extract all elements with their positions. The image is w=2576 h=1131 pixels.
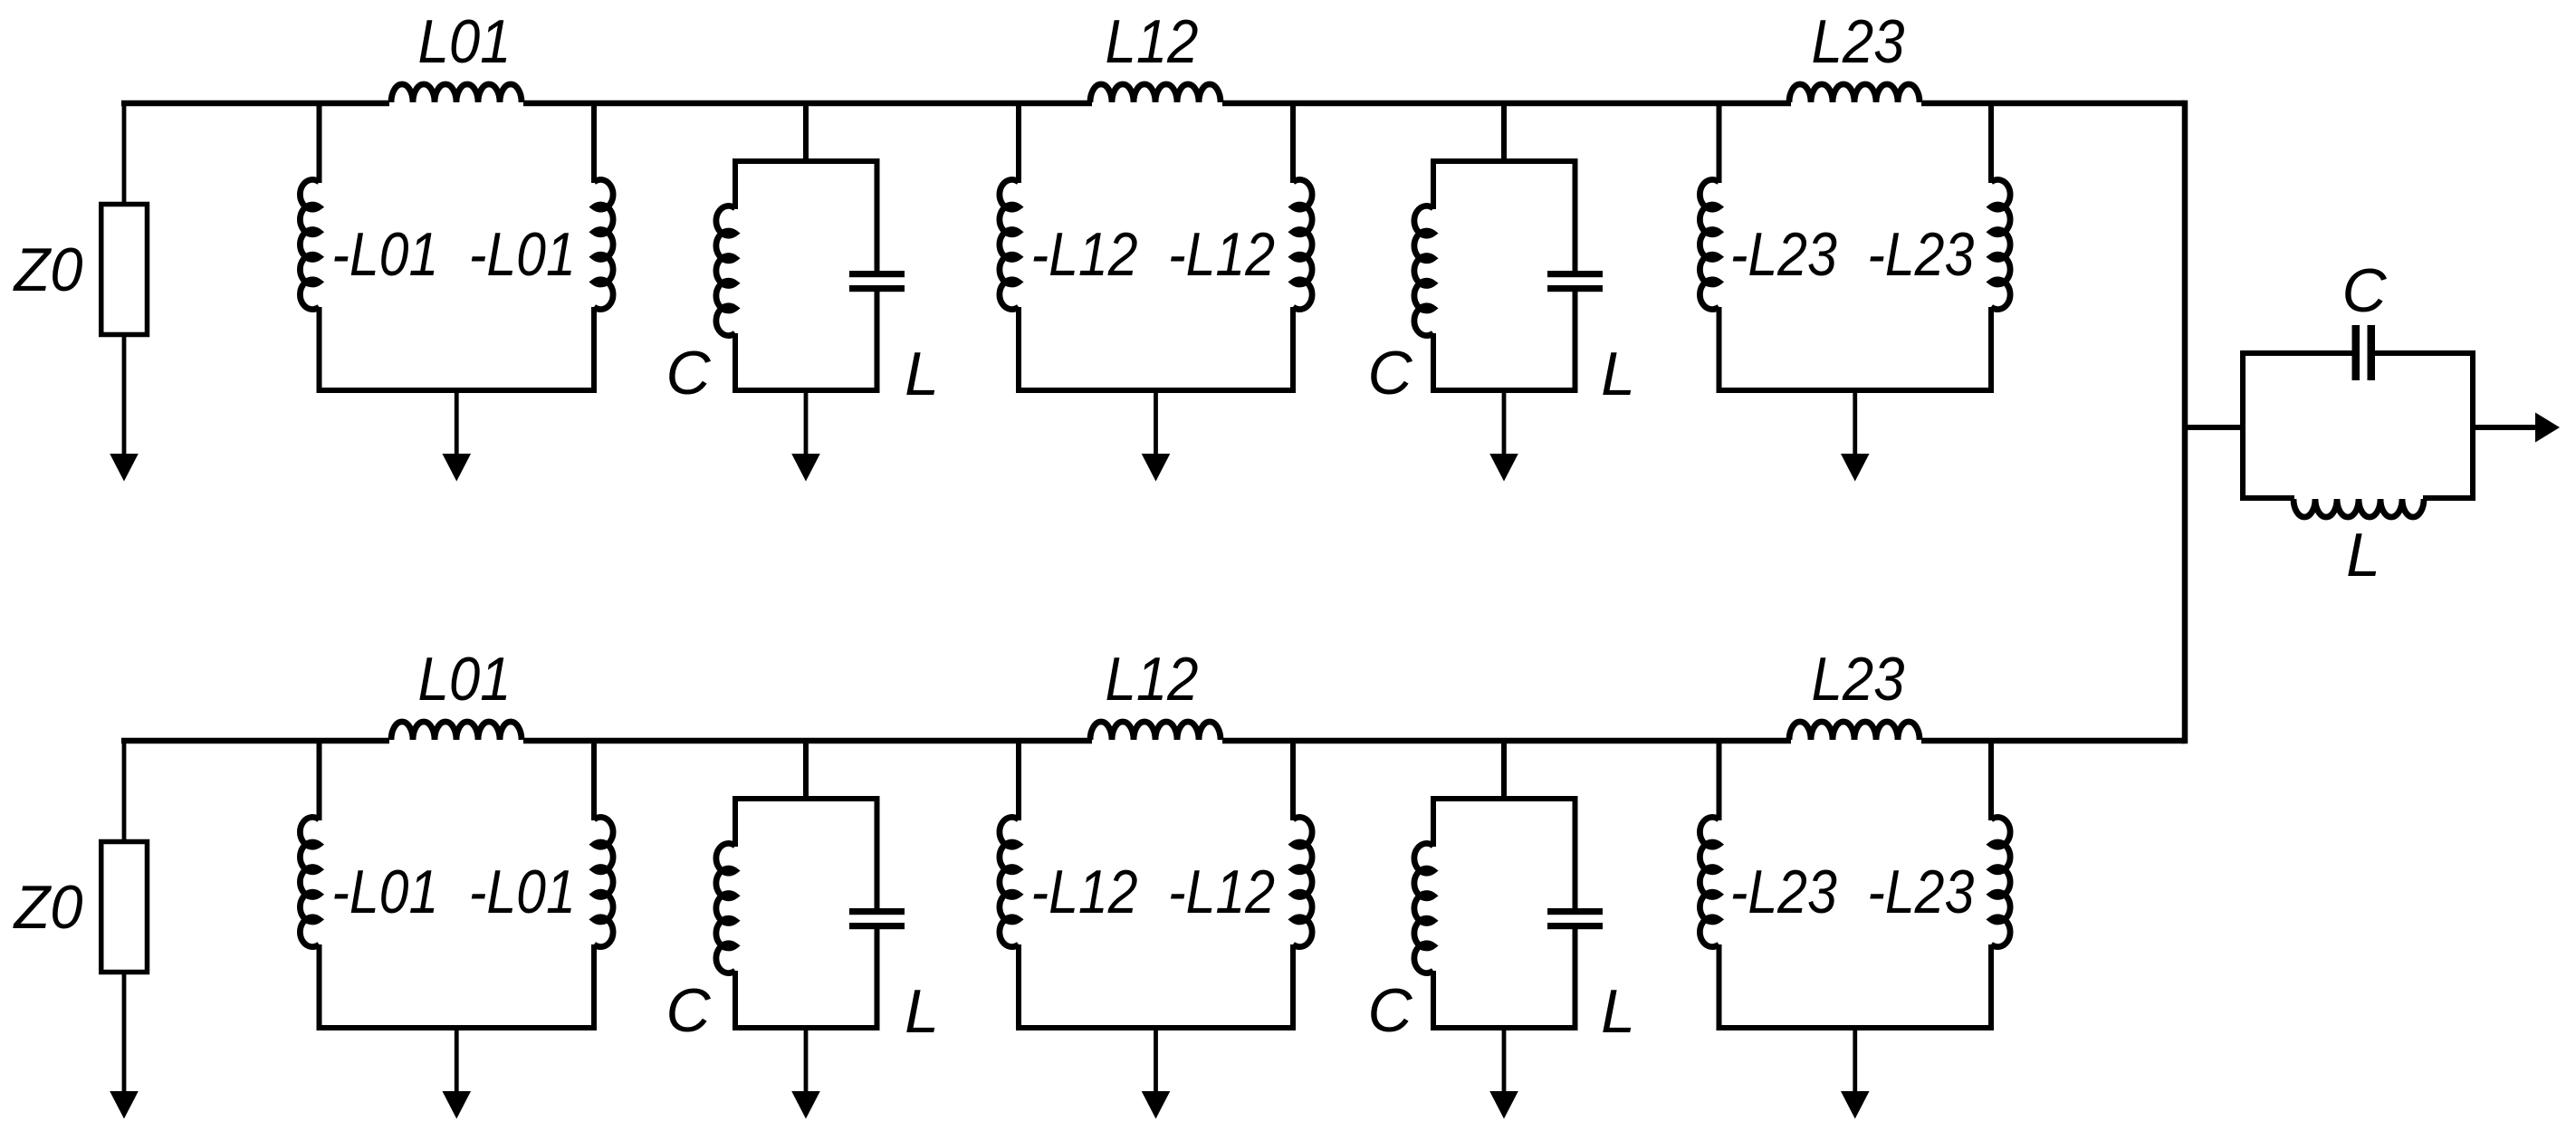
- svg-text:L12: L12: [1106, 7, 1199, 76]
- wire resonator ground stem (top): [804, 390, 809, 455]
- inductor -L01 left coil (bottom): [300, 817, 319, 946]
- wire resonator stub x=1661 (top): [1501, 103, 1507, 164]
- resistor Z0 (bottom): [101, 842, 148, 973]
- wire resonator right edge lower (top): [1573, 292, 1578, 390]
- wire resonator bottom edge (bottom): [1431, 1025, 1578, 1030]
- wire resonator right edge upper (bottom): [1573, 799, 1578, 909]
- svg-text:L12: L12: [1106, 645, 1199, 714]
- capacitor C output plate left: [2352, 325, 2361, 380]
- inductor -L12 right coil (top): [1293, 179, 1312, 309]
- wire L23 box left vertical lower (top): [1717, 307, 1722, 390]
- wire L12 box right vertical upper (bottom): [1290, 741, 1296, 820]
- svg-text:-L12: -L12: [1168, 858, 1275, 926]
- capacitor plate bottom (top): [849, 285, 905, 292]
- output arrow: [2535, 413, 2560, 443]
- inductor -L23 right coil (top): [1991, 179, 2010, 309]
- wire main line segment 2 (top): [523, 101, 1092, 107]
- wire main line segment 3 (top): [1222, 101, 1791, 107]
- wire L01 box right vertical lower (bottom): [591, 944, 597, 1028]
- svg-text:L01: L01: [418, 7, 512, 76]
- wire resonator left edge lower (top): [1431, 333, 1436, 390]
- wire resonator right edge lower (top): [875, 292, 880, 390]
- wire main line right segment (bottom): [1921, 738, 2185, 744]
- svg-text:L23: L23: [1812, 645, 1905, 714]
- wire resonator left edge upper (top): [1431, 161, 1436, 209]
- wire Z0 drop (bottom): [122, 739, 127, 843]
- wire output box bottom edge left: [2240, 495, 2294, 501]
- wire output box top edge right: [2374, 350, 2475, 356]
- svg-text:Z0: Z0: [13, 873, 83, 942]
- wire output branch: [2185, 425, 2246, 430]
- wire L01 box right vertical upper (top): [591, 103, 597, 183]
- wire main line left segment (top): [121, 101, 389, 107]
- capacitor plate top (top): [1547, 271, 1603, 277]
- svg-text:L23: L23: [1812, 7, 1905, 76]
- wire L01 ground stem (top): [455, 390, 459, 455]
- svg-text:-L23: -L23: [1730, 220, 1837, 289]
- wire L23 box left vertical upper (top): [1717, 103, 1722, 183]
- wire output box top edge left: [2240, 350, 2353, 356]
- inductor C-branch coil (bottom): [716, 843, 735, 973]
- wire L23 box right vertical upper (top): [1988, 103, 1994, 183]
- wire resonator right edge lower (bottom): [1573, 929, 1578, 1028]
- inductor C-branch coil (top): [1414, 206, 1433, 335]
- wire L01 box left vertical upper (bottom): [317, 741, 322, 820]
- inductor -L12 left coil (bottom): [1000, 817, 1019, 946]
- wire L12 box right vertical lower (top): [1290, 307, 1296, 390]
- wire resonator right edge upper (bottom): [875, 799, 880, 909]
- wire L01 box bottom edge (top): [317, 388, 598, 393]
- capacitor C output plate right: [2368, 325, 2376, 380]
- ground arrow under -L23 box (bottom): [1841, 1091, 1870, 1119]
- wire resonator left edge upper (bottom): [733, 799, 738, 847]
- wire resonator bottom edge (top): [1431, 388, 1578, 393]
- wire L12 box right vertical upper (top): [1290, 103, 1296, 183]
- inductor L01 series coil (top): [391, 84, 522, 102]
- wire L12 box left vertical lower (top): [1016, 307, 1021, 390]
- svg-text:L: L: [1601, 977, 1635, 1046]
- capacitor plate top (bottom): [849, 908, 905, 915]
- wire L01 box right vertical upper (bottom): [591, 741, 597, 820]
- svg-text:C: C: [1367, 976, 1412, 1045]
- svg-text:-L23: -L23: [1730, 858, 1837, 926]
- wire resonator right edge upper (top): [875, 161, 880, 272]
- wire resonator right edge upper (top): [1573, 161, 1578, 272]
- svg-text:-L01: -L01: [469, 220, 576, 289]
- wire resonator ground stem (top): [1502, 390, 1507, 455]
- wire L12 box right vertical lower (bottom): [1290, 944, 1296, 1028]
- ground arrow under resonator (top): [1489, 454, 1518, 482]
- inductor L01 series coil (bottom): [391, 722, 522, 740]
- wire resonator left edge lower (top): [733, 333, 738, 390]
- wire L23 box bottom edge (bottom): [1717, 1025, 1995, 1030]
- ground arrow under resonator (bottom): [1489, 1091, 1518, 1119]
- wire resonator top edge (top): [1431, 158, 1578, 164]
- wire resonator ground stem (bottom): [1502, 1028, 1507, 1093]
- svg-text:-L12: -L12: [1031, 220, 1138, 289]
- inductor -L23 left coil (bottom): [1700, 817, 1719, 946]
- ground arrow under resonator (bottom): [791, 1091, 820, 1119]
- inductor L23 series coil (bottom): [1789, 722, 1920, 740]
- svg-text:L: L: [905, 977, 939, 1046]
- svg-text:-L12: -L12: [1031, 858, 1138, 926]
- wire L23 box left vertical lower (bottom): [1717, 944, 1722, 1028]
- svg-text:L: L: [2346, 521, 2380, 589]
- wire trunk vertical joining both networks: [2182, 101, 2188, 743]
- ground arrow under resonator (top): [791, 454, 820, 482]
- wire L12 ground stem (bottom): [1154, 1028, 1158, 1093]
- wire main line segment 3 (bottom): [1222, 738, 1791, 744]
- svg-text:-L12: -L12: [1168, 220, 1275, 289]
- svg-text:C: C: [1367, 339, 1412, 407]
- wire L01 ground stem (bottom): [455, 1028, 459, 1093]
- wire L23 ground stem (bottom): [1853, 1028, 1857, 1093]
- ground arrow under -L01 box (top): [442, 454, 471, 482]
- wire L12 box bottom edge (top): [1016, 388, 1296, 393]
- wire L23 ground stem (top): [1853, 390, 1857, 455]
- wire output lead: [2473, 425, 2537, 430]
- inductor -L01 left coil (top): [300, 179, 319, 309]
- svg-text:-L23: -L23: [1867, 220, 1974, 289]
- ground arrow under -L12 box (top): [1142, 454, 1171, 482]
- wire resonator bottom edge (bottom): [733, 1025, 880, 1030]
- capacitor plate top (bottom): [1547, 908, 1603, 915]
- wire output box left edge: [2240, 353, 2246, 501]
- inductor -L12 right coil (bottom): [1293, 817, 1312, 946]
- wire L12 box left vertical lower (bottom): [1016, 944, 1021, 1028]
- wire main line segment 2 (bottom): [523, 738, 1092, 744]
- wire resonator left edge upper (top): [733, 161, 738, 209]
- wire main line left segment (bottom): [121, 738, 389, 744]
- wire resonator left edge lower (bottom): [1431, 971, 1436, 1028]
- ground arrow under -L23 box (top): [1841, 454, 1870, 482]
- wire main line right segment (top): [1921, 101, 2185, 107]
- wire resonator stub x=890 (bottom): [803, 741, 809, 801]
- svg-text:C: C: [2341, 256, 2387, 325]
- wire resonator stub x=890 (top): [803, 103, 809, 164]
- wire L01 box right vertical lower (top): [591, 307, 597, 390]
- inductor -L12 left coil (top): [1000, 179, 1019, 309]
- ground arrow under -L01 box (bottom): [442, 1091, 471, 1119]
- capacitor plate bottom (bottom): [1547, 923, 1603, 929]
- ground arrow under -L12 box (bottom): [1142, 1091, 1171, 1119]
- inductor L12 series coil (bottom): [1090, 722, 1221, 740]
- wire output box right edge: [2470, 353, 2475, 501]
- inductor -L01 right coil (top): [594, 179, 613, 309]
- wire L12 box left vertical upper (top): [1016, 103, 1021, 183]
- wire resonator ground stem (bottom): [804, 1028, 809, 1093]
- wire resonator top edge (top): [733, 158, 880, 164]
- inductor -L23 right coil (bottom): [1991, 817, 2010, 946]
- wire L12 box left vertical upper (bottom): [1016, 741, 1021, 820]
- wire Z0 ground stem (bottom): [122, 972, 127, 1094]
- wire resonator bottom edge (top): [733, 388, 880, 393]
- wire resonator left edge lower (bottom): [733, 971, 738, 1028]
- capacitor plate top (top): [849, 271, 905, 277]
- inductor -L01 right coil (bottom): [594, 817, 613, 946]
- svg-text:-L01: -L01: [331, 858, 438, 926]
- svg-text:-L01: -L01: [469, 858, 576, 926]
- resistor Z0 (top): [101, 205, 148, 335]
- svg-text:L01: L01: [418, 645, 512, 714]
- ground arrow under Z0 (top): [110, 454, 139, 482]
- wire L12 box bottom edge (bottom): [1016, 1025, 1296, 1030]
- wire resonator top edge (bottom): [733, 796, 880, 801]
- svg-text:Z0: Z0: [13, 235, 83, 304]
- wire L23 box left vertical upper (bottom): [1717, 741, 1722, 820]
- wire resonator top edge (bottom): [1431, 796, 1578, 801]
- wire L01 box left vertical upper (top): [317, 103, 322, 183]
- wire L12 ground stem (top): [1154, 390, 1158, 455]
- svg-text:L: L: [905, 340, 939, 408]
- svg-text:C: C: [666, 339, 711, 407]
- wire L23 box right vertical lower (top): [1988, 307, 1994, 390]
- inductor L23 series coil (top): [1789, 84, 1920, 102]
- wire Z0 ground stem (top): [122, 334, 127, 456]
- capacitor plate bottom (top): [1547, 285, 1603, 292]
- inductor -L23 left coil (top): [1700, 179, 1719, 309]
- inductor L output coil: [2294, 499, 2424, 517]
- wire L23 box right vertical upper (bottom): [1988, 741, 1994, 820]
- svg-text:-L01: -L01: [331, 220, 438, 289]
- wire L01 box bottom edge (bottom): [317, 1025, 598, 1030]
- wire L23 box bottom edge (top): [1717, 388, 1995, 393]
- inductor C-branch coil (bottom): [1414, 843, 1433, 973]
- wire output box bottom edge right: [2423, 495, 2475, 501]
- svg-text:C: C: [666, 976, 711, 1045]
- wire L01 box left vertical lower (top): [317, 307, 322, 390]
- inductor L12 series coil (top): [1090, 84, 1221, 102]
- inductor C-branch coil (top): [716, 206, 735, 335]
- wire L23 box right vertical lower (bottom): [1988, 944, 1994, 1028]
- wire resonator right edge lower (bottom): [875, 929, 880, 1028]
- wire L01 box left vertical lower (bottom): [317, 944, 322, 1028]
- capacitor plate bottom (bottom): [849, 923, 905, 929]
- svg-text:L: L: [1601, 340, 1635, 408]
- wire resonator left edge upper (bottom): [1431, 799, 1436, 847]
- wire Z0 drop (top): [122, 101, 127, 206]
- ground arrow under Z0 (bottom): [110, 1091, 139, 1119]
- svg-text:-L23: -L23: [1867, 858, 1974, 926]
- wire resonator stub x=1661 (bottom): [1501, 741, 1507, 801]
